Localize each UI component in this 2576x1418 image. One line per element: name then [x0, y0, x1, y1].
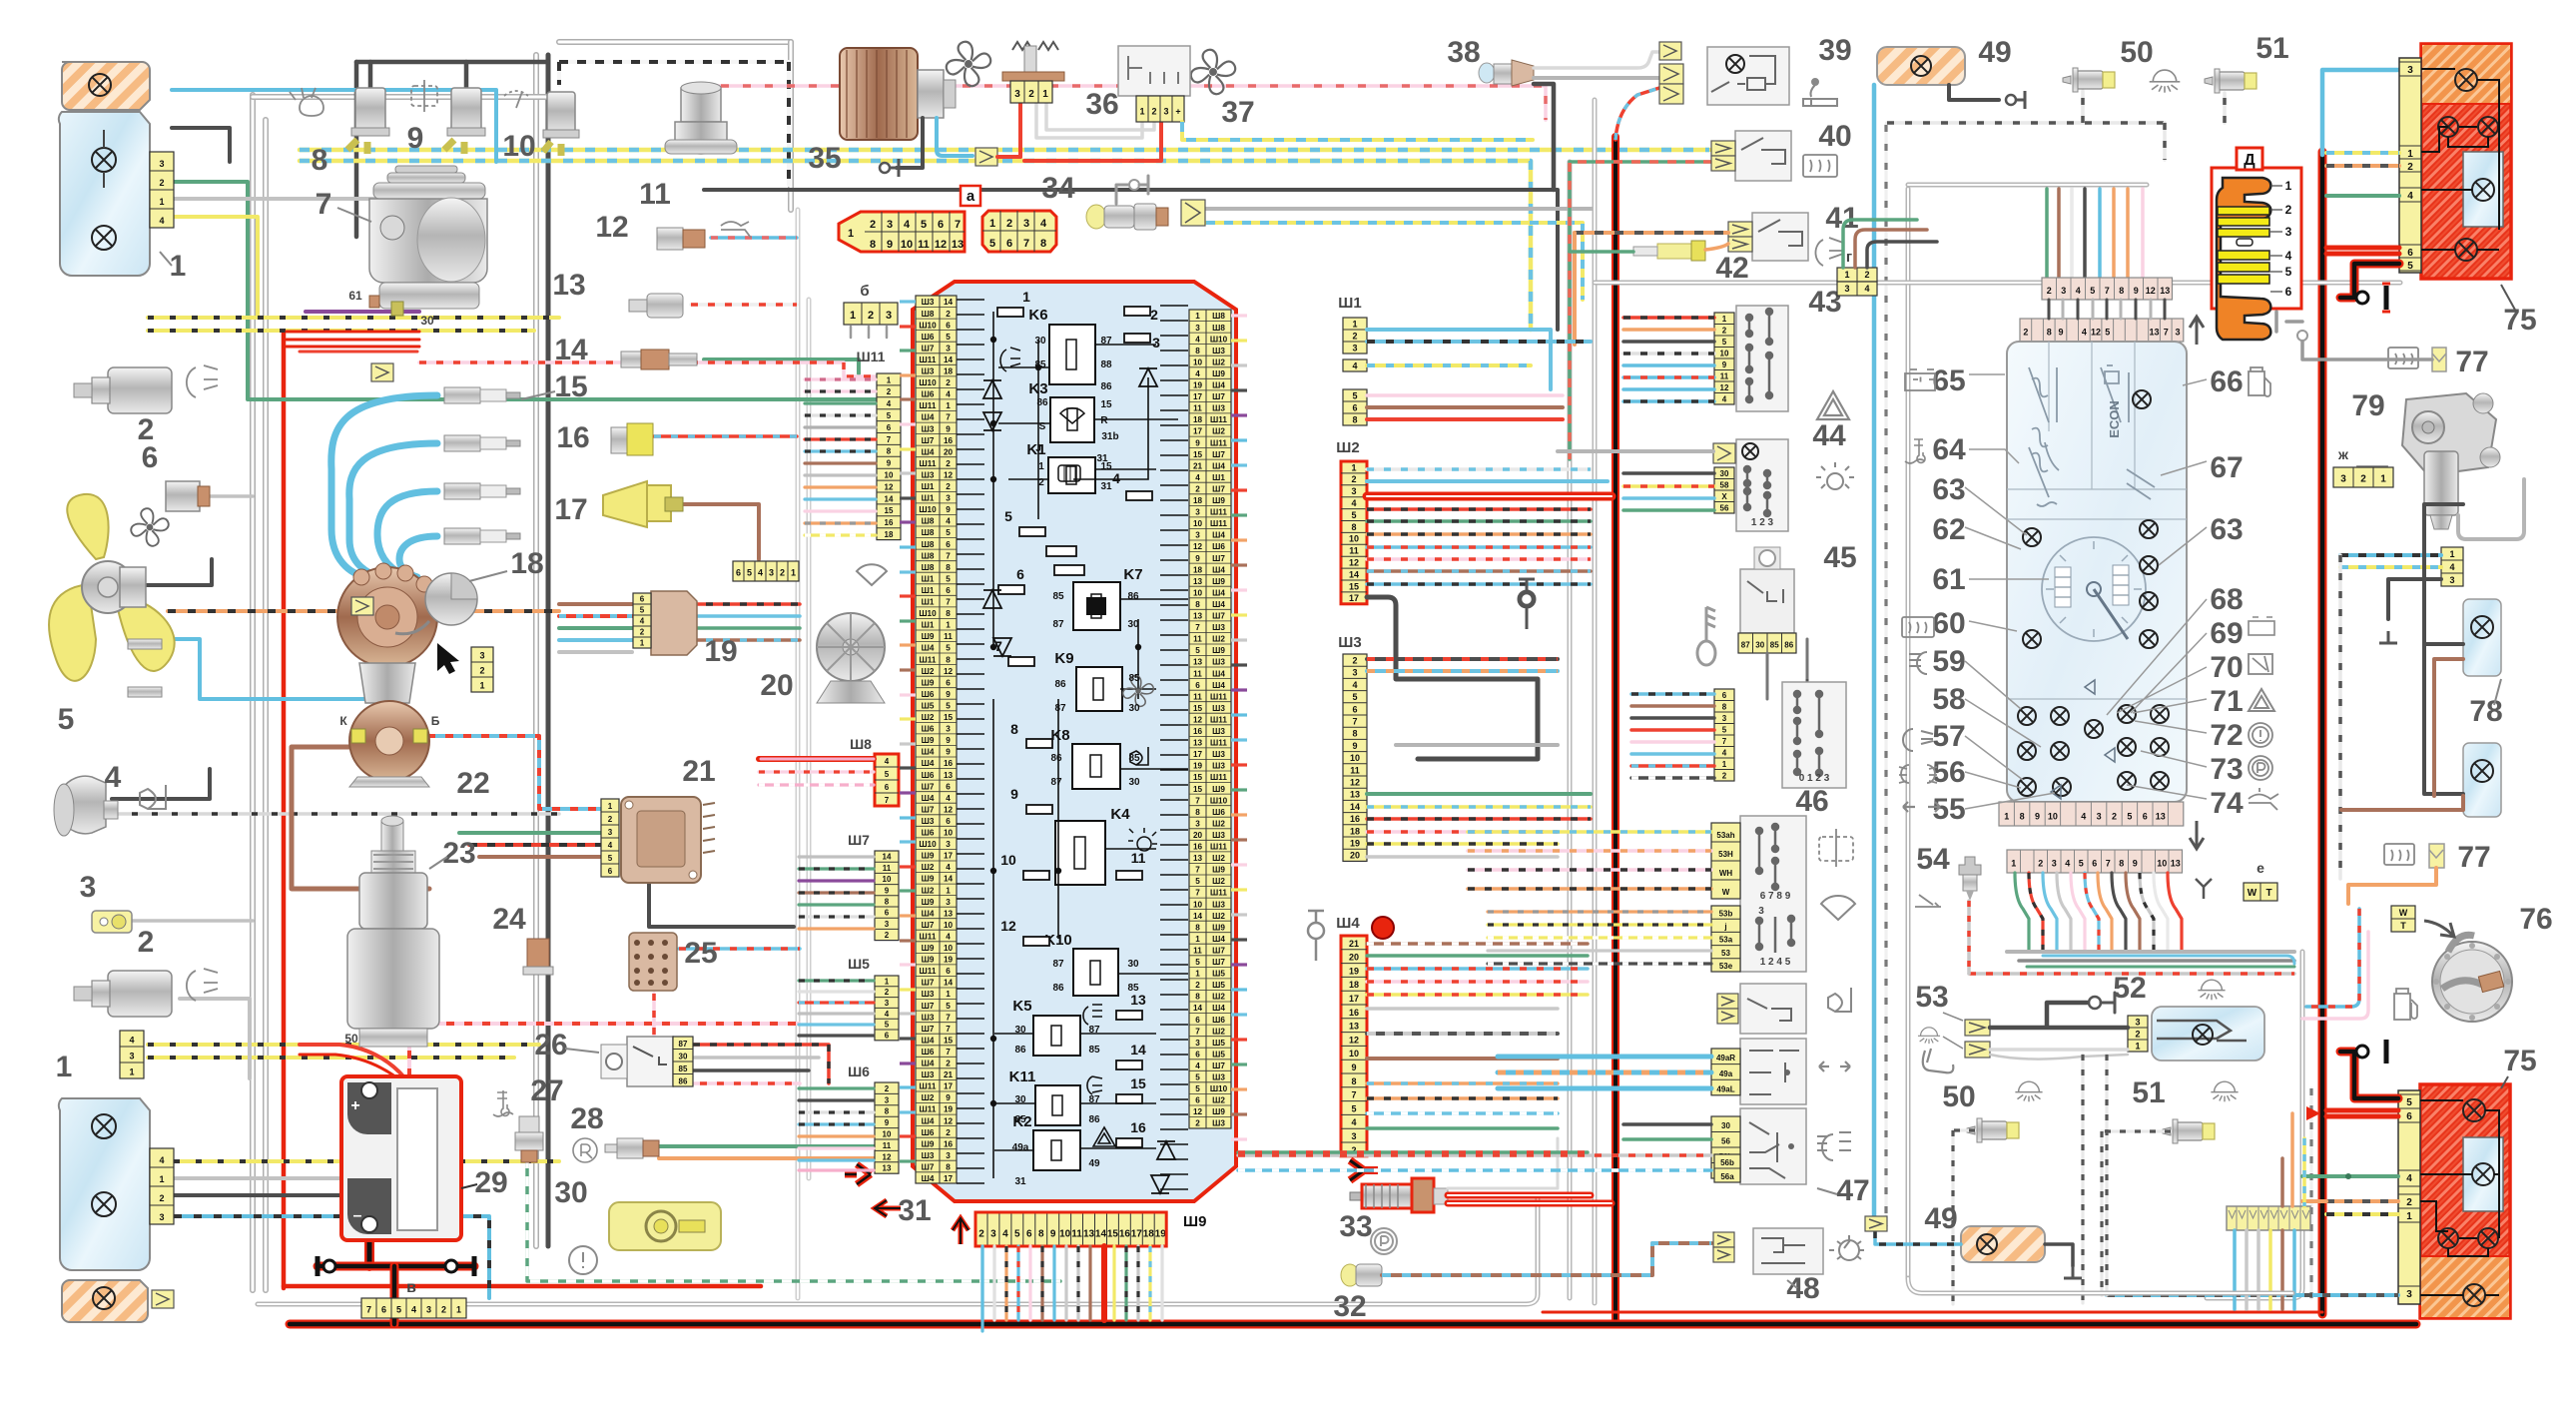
svg-text:Ш11: Ш11 — [920, 401, 937, 410]
svg-text:4: 4 — [129, 1035, 134, 1045]
svg-text:1: 1 — [2004, 811, 2009, 821]
wire 35 blue — [937, 118, 972, 156]
svg-text:ECON: ECON — [2107, 400, 2122, 438]
svg-text:5: 5 — [1352, 692, 1357, 702]
svg-text:7: 7 — [955, 219, 961, 231]
zigzag 53a — [1965, 1020, 1990, 1036]
svg-text:Ш7: Ш7 — [1212, 392, 1225, 401]
bus black-red main vertical x1618 — [1611, 137, 1619, 1324]
red arrow up — [953, 1218, 968, 1244]
svg-text:Ш7: Ш7 — [1212, 1062, 1225, 1070]
svg-text:85: 85 — [1088, 1045, 1100, 1056]
svg-text:4: 4 — [2065, 859, 2070, 869]
svg-text:14: 14 — [1130, 1042, 1146, 1058]
wire orange fan to frame — [384, 609, 559, 613]
horn 17 — [603, 481, 647, 527]
svg-text:32: 32 — [1333, 1290, 1366, 1323]
icon sun 52 — [2198, 980, 2225, 1000]
svg-text:4: 4 — [885, 1010, 890, 1019]
gray dash vertical right — [2338, 555, 2342, 879]
svg-text:9: 9 — [946, 424, 951, 433]
svg-text:5: 5 — [1195, 646, 1200, 655]
svg-text:5: 5 — [1195, 877, 1200, 886]
svg-text:1: 1 — [129, 1066, 134, 1076]
svg-text:14: 14 — [1193, 912, 1203, 921]
svg-text:3: 3 — [885, 999, 890, 1008]
wire 45 down — [1767, 639, 1807, 699]
wires Ш2 east lower — [1367, 507, 1591, 511]
tail lamp 75 top lamps — [2455, 69, 2477, 91]
svg-text:71: 71 — [2210, 685, 2243, 718]
svg-text:19: 19 — [1155, 1228, 1167, 1239]
svg-text:12: 12 — [944, 471, 954, 480]
svg-text:3: 3 — [159, 1212, 164, 1222]
wire black dashed top — [559, 62, 789, 185]
bus below cluster — [2007, 950, 2294, 954]
svg-text:4: 4 — [946, 390, 951, 399]
svg-text:7: 7 — [946, 1025, 951, 1034]
icon turn arrows — [1819, 1062, 1850, 1071]
svg-text:10: 10 — [944, 921, 954, 930]
svg-text:Ш2: Ш2 — [922, 863, 935, 872]
svg-text:63: 63 — [2210, 513, 2243, 546]
svg-text:Ш3: Ш3 — [922, 990, 935, 999]
svg-text:18: 18 — [1193, 415, 1203, 424]
svg-text:27: 27 — [530, 1074, 563, 1107]
svg-text:53a: 53a — [1719, 936, 1733, 945]
svg-text:16: 16 — [944, 759, 954, 768]
distributor body — [359, 663, 415, 703]
svg-text:53e: 53e — [1719, 962, 1733, 971]
svg-text:5: 5 — [640, 606, 645, 615]
cluster lamp rows bottom — [2018, 707, 2036, 725]
svg-text:28: 28 — [570, 1102, 603, 1135]
svg-text:7: 7 — [2105, 286, 2110, 296]
svg-text:24: 24 — [492, 903, 526, 936]
svg-text:86: 86 — [1052, 983, 1064, 994]
ground 75 bottom — [2340, 1052, 2398, 1098]
svg-text:1: 1 — [885, 977, 890, 986]
wires 44 — [1558, 449, 1713, 453]
svg-text:е: е — [2256, 860, 2264, 876]
wire green from headlamp 1 connector — [172, 182, 876, 399]
svg-text:Ш11: Ш11 — [1210, 889, 1227, 898]
fusebox internal relay K7 — [1073, 582, 1120, 630]
wires short stubs left of tail — [2302, 1174, 2326, 1178]
zigzag 44 — [1713, 443, 1735, 463]
svg-text:5: 5 — [1014, 1228, 1020, 1239]
connector 47 30-56 — [1711, 1116, 1740, 1178]
wires into 75 bottom — [2326, 1174, 2398, 1178]
svg-text:10: 10 — [885, 470, 894, 479]
svg-text:Ш3: Ш3 — [1212, 404, 1225, 413]
switch 47 horn section — [1740, 984, 1806, 1034]
fusebox right pin column — [1189, 310, 1231, 1128]
icon 60 defrost — [1902, 617, 1934, 637]
svg-text:Ш5: Ш5 — [922, 702, 935, 711]
svg-text:87: 87 — [1088, 1094, 1100, 1105]
svg-text:4: 4 — [904, 219, 911, 231]
wire 19 connector wires east — [689, 602, 800, 606]
wire bundle above cluster — [1908, 183, 2147, 188]
headlamp 1 bottom glass — [59, 1098, 150, 1270]
ignition module 21 — [621, 797, 701, 883]
wire module feed red — [469, 843, 601, 847]
svg-text:4: 4 — [2285, 249, 2292, 263]
svg-text:5: 5 — [2105, 328, 2110, 338]
svg-text:12: 12 — [883, 1152, 892, 1161]
svg-text:6: 6 — [1195, 681, 1200, 690]
svg-text:86: 86 — [1100, 381, 1112, 392]
icon seat 53 — [1923, 1049, 1954, 1072]
svg-text:86: 86 — [1014, 1045, 1026, 1056]
wire 36 red — [997, 155, 1020, 159]
connector в — [361, 1298, 466, 1318]
svg-text:5: 5 — [58, 703, 75, 736]
svg-text:1: 1 — [946, 886, 951, 895]
svg-text:5: 5 — [946, 644, 951, 653]
svg-text:Ш8: Ш8 — [922, 310, 935, 319]
svg-text:Ш10: Ш10 — [919, 378, 937, 387]
svg-text:13: 13 — [1193, 577, 1203, 586]
svg-text:3: 3 — [479, 651, 484, 661]
svg-text:Ш2: Ш2 — [1212, 993, 1225, 1002]
wires 43 — [1623, 316, 1714, 320]
svg-text:Ш7: Ш7 — [922, 782, 935, 791]
zigzag 39a — [1659, 42, 1681, 60]
svg-text:3: 3 — [1351, 486, 1356, 496]
ground 75 top — [2340, 264, 2399, 298]
wire Ш2-3 red thick bundle — [1367, 492, 1611, 501]
svg-text:10: 10 — [944, 944, 954, 953]
svg-text:3: 3 — [886, 310, 892, 322]
svg-text:3: 3 — [608, 828, 613, 837]
svg-text:Ш1: Ш1 — [922, 621, 935, 630]
svg-text:Ш2: Ш2 — [1212, 877, 1225, 886]
svg-text:Ш11: Ш11 — [1210, 519, 1227, 528]
headlamp 1 lamps — [89, 74, 111, 96]
svg-text:8: 8 — [1351, 1076, 1356, 1086]
svg-text:5: 5 — [946, 333, 951, 342]
svg-text:7: 7 — [1195, 889, 1200, 898]
connector 47 upper — [1711, 823, 1740, 899]
svg-text:34: 34 — [1041, 172, 1075, 205]
svg-text:3: 3 — [1014, 89, 1020, 100]
door frame bottom corner — [1908, 1278, 2292, 1293]
svg-text:Ш4: Ш4 — [922, 447, 935, 456]
icon 59 headlight — [1909, 652, 1927, 674]
connector Ш9 strip — [975, 1212, 1166, 1246]
svg-text:19: 19 — [1349, 966, 1359, 976]
svg-text:Ш4: Ш4 — [1212, 681, 1225, 690]
svg-text:2: 2 — [978, 1228, 984, 1239]
svg-text:14: 14 — [885, 494, 894, 503]
connector 37 — [1136, 96, 1184, 122]
bus black dashed vertical x2315 — [2309, 1088, 2312, 1298]
headlamp 1 top-left glass — [59, 112, 150, 276]
cluster body — [2007, 342, 2187, 802]
relay 26 pins — [673, 1037, 693, 1086]
svg-text:56: 56 — [1721, 1137, 1730, 1146]
svg-text:Ш9: Ш9 — [922, 1139, 935, 1148]
wire gray double y205 from lighter 34 — [1206, 209, 1595, 280]
svg-text:58: 58 — [1720, 480, 1729, 489]
svg-text:j: j — [1723, 922, 1726, 931]
svg-text:2: 2 — [1722, 326, 1727, 335]
svg-text:16: 16 — [1349, 1008, 1359, 1018]
svg-text:3: 3 — [1758, 906, 1764, 917]
svg-text:Ш2: Ш2 — [922, 1093, 935, 1102]
icon washer 8 — [290, 88, 323, 116]
svg-text:Ш7: Ш7 — [922, 921, 935, 930]
svg-text:18: 18 — [1193, 565, 1203, 574]
svg-text:85: 85 — [1770, 640, 1779, 649]
svg-text:7: 7 — [1195, 866, 1200, 875]
connector e WT — [2244, 883, 2277, 901]
svg-text:31b: 31b — [1101, 431, 1118, 442]
arrow down — [2190, 821, 2204, 849]
capacitor 24 — [527, 939, 549, 969]
icon headlight 47 — [1817, 1132, 1851, 1160]
svg-text:1: 1 — [850, 310, 856, 322]
svg-text:6: 6 — [736, 567, 741, 577]
svg-text:Ш11: Ш11 — [1210, 692, 1227, 701]
svg-text:2: 2 — [1150, 307, 1158, 323]
svg-text:49: 49 — [1924, 1202, 1957, 1235]
svg-text:9: 9 — [946, 748, 951, 757]
svg-text:15: 15 — [1193, 450, 1203, 459]
svg-text:12: 12 — [1193, 542, 1203, 551]
wire dark gray y190 long — [704, 190, 1558, 330]
svg-text:Ш8: Ш8 — [850, 736, 872, 752]
svg-text:30: 30 — [1721, 1121, 1730, 1130]
horn 4 — [62, 776, 106, 834]
svg-text:Ш11: Ш11 — [857, 349, 886, 364]
svg-text:+: + — [1175, 107, 1180, 117]
svg-text:5: 5 — [2285, 265, 2292, 279]
svg-text:W: W — [2399, 908, 2408, 918]
wires 78 — [2424, 504, 2463, 794]
svg-text:1: 1 — [1022, 289, 1030, 305]
connector д cells — [2042, 278, 2173, 300]
svg-text:64: 64 — [1932, 433, 1966, 466]
svg-text:Ш2: Ш2 — [1212, 1027, 1225, 1036]
svg-text:Ш6: Ш6 — [922, 1128, 935, 1137]
svg-text:Ш7: Ш7 — [922, 436, 935, 445]
svg-text:56a: 56a — [1720, 1172, 1734, 1181]
svg-text:Ш9: Ш9 — [1212, 923, 1225, 932]
icon 65 battery — [1905, 369, 1935, 390]
svg-text:Ш6: Ш6 — [922, 333, 935, 342]
wires 47 upper — [1468, 830, 1711, 834]
svg-text:12: 12 — [1193, 716, 1203, 725]
svg-text:4: 4 — [2449, 562, 2454, 572]
fusebox junction dots — [990, 337, 996, 343]
lamp 49 top right — [1877, 47, 1965, 85]
svg-text:17: 17 — [1349, 593, 1359, 603]
svg-text:Ш4: Ш4 — [922, 644, 935, 653]
svg-text:8: 8 — [1195, 993, 1200, 1002]
starter 23 — [381, 821, 403, 851]
zigzag 47b — [1717, 1009, 1738, 1024]
svg-text:1: 1 — [1042, 89, 1048, 100]
svg-text:78: 78 — [2469, 695, 2502, 728]
tail lamp 75 bottom box — [2420, 1084, 2510, 1318]
svg-text:2: 2 — [885, 1084, 890, 1093]
svg-text:11: 11 — [883, 1141, 892, 1150]
distributor vacuum capsule — [425, 573, 477, 625]
svg-text:Ш8: Ш8 — [1212, 324, 1225, 333]
wires into Ш8 red frame — [759, 756, 874, 762]
svg-text:Ш8: Ш8 — [922, 563, 935, 572]
resistor 36 — [1012, 42, 1058, 50]
wire gray headlamp — [172, 197, 459, 201]
svg-text:7: 7 — [1722, 737, 1727, 746]
svg-text:Ш3: Ш3 — [1212, 658, 1225, 667]
connector 52 — [2128, 1016, 2148, 1052]
svg-text:Ш9: Ш9 — [922, 956, 935, 965]
fusebox icon wiper K3 — [1060, 408, 1084, 423]
cluster bottom strip — [1999, 802, 2184, 826]
bulb 38 — [1479, 63, 1495, 83]
svg-text:3: 3 — [1023, 218, 1029, 230]
svg-text:1: 1 — [1722, 760, 1727, 769]
svg-text:4: 4 — [1195, 369, 1200, 378]
svg-text:87: 87 — [1054, 703, 1066, 714]
svg-text:10: 10 — [1193, 519, 1203, 528]
sensor 33 red Y — [1350, 1160, 1378, 1180]
svg-text:21: 21 — [1349, 939, 1359, 949]
svg-text:в: в — [406, 1279, 416, 1296]
svg-text:3: 3 — [946, 725, 951, 734]
wire 38 dark thick — [1534, 84, 1554, 190]
svg-text:5: 5 — [2127, 811, 2132, 821]
svg-text:1: 1 — [2406, 1211, 2412, 1222]
wire 54 down — [1967, 901, 1971, 974]
svg-text:3: 3 — [769, 567, 774, 577]
svg-text:49: 49 — [1088, 1158, 1100, 1169]
svg-text:Ш2: Ш2 — [1212, 1096, 1225, 1105]
svg-text:Ш1: Ш1 — [922, 574, 935, 583]
wire 32 brown — [1382, 1243, 1711, 1275]
svg-text:4: 4 — [887, 399, 892, 408]
svg-text:3: 3 — [2052, 859, 2057, 869]
svg-text:12: 12 — [1193, 1107, 1203, 1116]
wire black vertical x549 — [546, 55, 551, 1246]
svg-text:85: 85 — [1127, 983, 1139, 994]
svg-text:7: 7 — [1023, 238, 1029, 250]
fusebox internal relay K3 — [1050, 397, 1094, 442]
icon cigarette — [1803, 79, 1837, 106]
legend Д box — [2212, 168, 2301, 309]
switch 43 box — [1736, 306, 1788, 411]
svg-text:1: 1 — [1038, 461, 1044, 472]
wire 35 dark ground — [897, 118, 923, 168]
wire 25 pink down — [654, 994, 800, 1083]
svg-text:Ш7: Ш7 — [922, 805, 935, 814]
tail lamp 75 bottom internal wires — [2420, 1100, 2499, 1295]
svg-text:5: 5 — [2090, 286, 2095, 296]
svg-text:15: 15 — [554, 370, 587, 403]
zigzag 40b — [1711, 156, 1735, 171]
svg-text:Ш3: Ш3 — [1212, 704, 1225, 713]
svg-text:30: 30 — [1755, 640, 1764, 649]
icon horn 47 — [1828, 988, 1851, 1012]
headlamp 1 bottom orange — [62, 1280, 148, 1322]
svg-text:1: 1 — [887, 375, 892, 384]
svg-text:12: 12 — [935, 239, 947, 251]
svg-text:30: 30 — [1034, 336, 1046, 347]
svg-text:Ш6: Ш6 — [922, 390, 935, 399]
svg-text:18: 18 — [944, 367, 954, 376]
svg-text:Ш9: Ш9 — [922, 736, 935, 745]
svg-text:Ш9: Ш9 — [1212, 785, 1225, 794]
svg-text:9: 9 — [1195, 554, 1200, 563]
icon foglamp 41 — [1815, 238, 1843, 266]
svg-text:11: 11 — [1193, 947, 1202, 956]
svg-text:1: 1 — [1195, 935, 1200, 944]
svg-text:7: 7 — [946, 551, 951, 560]
svg-text:Ш3: Ш3 — [922, 367, 935, 376]
fan 5 motor — [120, 567, 146, 607]
svg-text:31: 31 — [898, 1194, 931, 1227]
svg-text:2: 2 — [1006, 218, 1012, 230]
svg-text:9: 9 — [946, 505, 951, 514]
gray dashed bus top right — [1887, 121, 2165, 125]
wire blue top headlight — [172, 90, 496, 162]
connector г — [1837, 268, 1877, 282]
svg-text:50: 50 — [1942, 1080, 1975, 1113]
svg-text:10: 10 — [1000, 852, 1016, 868]
svg-text:9: 9 — [1351, 1063, 1356, 1072]
svg-text:16: 16 — [1350, 814, 1360, 824]
connector 56b 56a cells — [1714, 1154, 1740, 1182]
fusebox internal relay K9 — [1076, 667, 1122, 711]
wire red 30-feed bottom horizontal — [284, 1284, 761, 1289]
svg-text:Ш9: Ш9 — [1212, 496, 1225, 505]
svg-text:30: 30 — [1127, 959, 1139, 970]
svg-text:K11: K11 — [1009, 1068, 1036, 1085]
svg-text:7: 7 — [1195, 796, 1200, 805]
svg-text:Ш6: Ш6 — [1212, 1016, 1225, 1025]
wire battery black to bottom bus — [390, 1266, 399, 1324]
svg-text:4: 4 — [1040, 218, 1047, 230]
svg-text:7: 7 — [946, 1013, 951, 1022]
svg-text:1: 1 — [946, 401, 951, 410]
svg-text:2: 2 — [946, 459, 951, 468]
wire HT coil center — [388, 659, 395, 711]
svg-text:Ш2: Ш2 — [1212, 854, 1225, 863]
wires into Ш7 — [799, 855, 874, 858]
switch 3 — [92, 911, 132, 933]
svg-text:Ш9: Ш9 — [1183, 1213, 1206, 1230]
icon small fan — [131, 508, 169, 546]
svg-text:г: г — [1846, 249, 1852, 266]
lighter 34 — [1086, 205, 1106, 229]
svg-text:73: 73 — [2210, 753, 2243, 786]
svg-text:75: 75 — [2503, 304, 2536, 337]
svg-text:2: 2 — [1864, 270, 1869, 280]
icon 66 fuel — [2249, 367, 2270, 396]
svg-text:39: 39 — [1818, 34, 1851, 67]
svg-text:15: 15 — [1193, 773, 1203, 782]
svg-text:Ш1: Ш1 — [922, 494, 935, 503]
wire 28 green east — [659, 1144, 876, 1148]
svg-text:K6: K6 — [1028, 307, 1047, 324]
svg-text:3: 3 — [1195, 508, 1200, 517]
svg-text:7: 7 — [1351, 1090, 1356, 1100]
svg-text:Ш11: Ш11 — [920, 967, 937, 976]
